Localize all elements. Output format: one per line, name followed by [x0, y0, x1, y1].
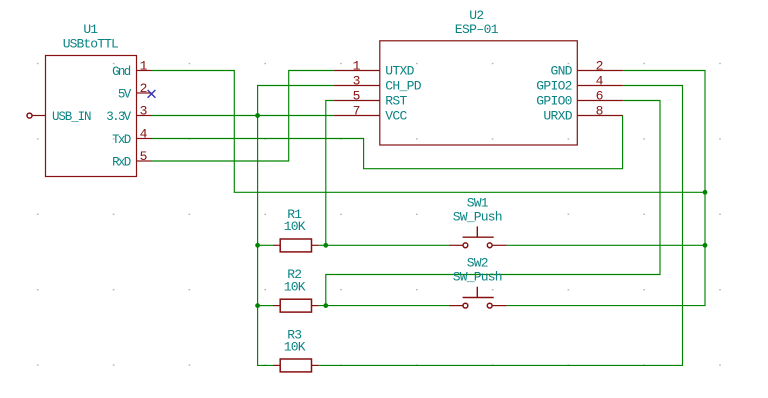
- svg-text:USBtoTTL: USBtoTTL: [63, 37, 118, 52]
- svg-text:SW_Push: SW_Push: [453, 209, 502, 224]
- wire GPIO0 net: [326, 101, 660, 306]
- no-connect X on 5V pin: [148, 90, 156, 98]
- wire R2 left rail link: [258, 305, 273, 307]
- U2 pin 6 GPIO0 stub: [577, 100, 623, 102]
- U2 pin 1 UTXD stub: [334, 70, 380, 72]
- IC U1 USBtoTTL body: [46, 56, 137, 177]
- junction R2 left: [255, 303, 260, 308]
- svg-text:5: 5: [353, 88, 361, 103]
- wire 3.3V to VCC: [152, 115, 335, 117]
- svg-text:1: 1: [353, 58, 361, 73]
- svg-text:Gnd: Gnd: [112, 65, 131, 79]
- wire GPIO2 net to R3 right: [319, 86, 683, 366]
- wire R1 left rail link: [258, 244, 273, 246]
- switch SW2 SW_Push: [449, 287, 507, 308]
- svg-text:3.3V: 3.3V: [106, 110, 131, 124]
- resistor R3: [273, 359, 319, 372]
- junction 3.3V at VCC row: [255, 113, 260, 118]
- svg-text:GPIO0: GPIO0: [536, 94, 572, 109]
- svg-text:CH_PD: CH_PD: [385, 79, 421, 94]
- svg-text:4: 4: [596, 73, 604, 88]
- svg-text:UTXD: UTXD: [385, 64, 414, 79]
- svg-text:VCC: VCC: [385, 109, 407, 124]
- switch SW1 SW_Push: [449, 226, 507, 247]
- U2 pin 4 GPIO2 stub: [577, 85, 623, 87]
- junction GND bus at U1 row: [703, 190, 708, 195]
- U1 pin 2 5V stub: [137, 92, 152, 94]
- svg-text:7: 7: [353, 103, 361, 118]
- svg-text:10K: 10K: [284, 279, 306, 294]
- junction R1 left: [255, 243, 260, 248]
- wire 3.3V vertical rail: [258, 86, 335, 366]
- svg-text:RxD: RxD: [112, 155, 131, 169]
- unconnected pin circle: [27, 113, 32, 118]
- svg-text:SW1: SW1: [467, 195, 489, 210]
- wire SW1 right to GND bus: [507, 244, 705, 246]
- svg-text:RST: RST: [385, 94, 407, 109]
- junction R2 right: [323, 303, 328, 308]
- svg-text:6: 6: [596, 88, 604, 103]
- svg-text:10K: 10K: [284, 219, 306, 234]
- U1 pin 3 3.3V stub: [137, 115, 152, 117]
- svg-text:10K: 10K: [284, 340, 306, 355]
- svg-text:U1: U1: [83, 22, 98, 37]
- U2 pin 5 RST stub: [334, 100, 380, 102]
- svg-text:5: 5: [140, 149, 148, 164]
- U1 pin 1 Gnd stub: [137, 70, 152, 72]
- U2 pin 2 GND stub: [577, 70, 623, 72]
- U1 pin 5 RxD stub: [137, 160, 152, 162]
- U2 pin 3 CH_PD stub: [334, 85, 380, 87]
- svg-text:1: 1: [140, 58, 148, 73]
- resistor R2: [273, 299, 319, 312]
- IC U2 ESP-01 body: [380, 41, 578, 145]
- svg-text:3: 3: [353, 73, 361, 88]
- svg-text:URXD: URXD: [543, 109, 572, 124]
- wire RST to R1 right: [326, 101, 334, 246]
- svg-text:ESP–01: ESP–01: [455, 22, 499, 37]
- resistor R1: [273, 239, 319, 252]
- junction R1 right: [323, 243, 328, 248]
- U2 pin 8 URXD stub: [577, 115, 623, 117]
- wire U2 GND pin2 down right bus: [507, 71, 705, 306]
- svg-text:2: 2: [596, 58, 604, 73]
- svg-text:GPIO2: GPIO2: [536, 79, 572, 94]
- svg-text:2: 2: [140, 81, 148, 96]
- junction GND bus at SW1 row: [703, 243, 708, 248]
- wire U1 Gnd to GND bus: horizontal: [152, 71, 706, 193]
- U2 pin 7 VCC stub: [334, 115, 380, 117]
- wire U1 TxD to U2 URXD: [152, 116, 623, 169]
- svg-text:TxD: TxD: [112, 133, 131, 147]
- svg-text:4: 4: [140, 126, 148, 141]
- wire R2 right to SW2 left: [319, 305, 449, 307]
- svg-text:USB_IN: USB_IN: [52, 110, 91, 124]
- svg-text:SW2: SW2: [467, 255, 488, 270]
- svg-text:SW_Push: SW_Push: [453, 270, 502, 285]
- wire R1 right to SW1 left: [319, 244, 449, 246]
- svg-text:3: 3: [140, 103, 148, 118]
- svg-text:8: 8: [596, 103, 604, 118]
- wire U1 RxD to U2 UTXD: [152, 71, 335, 162]
- svg-text:GND: GND: [550, 64, 572, 79]
- svg-text:U2: U2: [469, 8, 483, 23]
- U1 pin 4 TxD stub: [137, 138, 152, 140]
- U1 pin USB_IN stub (left, unconnected): [32, 115, 46, 117]
